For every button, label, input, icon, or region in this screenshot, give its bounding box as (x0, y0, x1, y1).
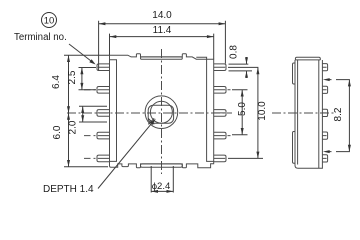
arrowhead leader terminal no (89, 59, 95, 64)
svg-text:8.2: 8.2 (333, 107, 344, 121)
side view body (295, 60, 322, 168)
svg-text:2.5: 2.5 (67, 70, 78, 84)
leader terminal no (69, 44, 94, 63)
terminal R5 (214, 155, 226, 162)
arrowheads dim 6.0 (67, 113, 70, 120)
svg-text:10.0: 10.0 (257, 101, 268, 121)
dim 11.4 line (110, 34, 214, 60)
arrowheads dim 8.2 (323, 78, 330, 81)
body outline (top view) (110, 54, 214, 168)
dim 5.0 line (232, 90, 248, 135)
svg-text:Terminal no.: Terminal no. (14, 32, 67, 43)
svg-text:6.0: 6.0 (52, 125, 63, 139)
arrowheads dim 6.4 (67, 55, 70, 62)
center hole circle (150, 101, 172, 123)
dim 6.0 line (64, 113, 108, 167)
vertical centerline (161, 49, 163, 174)
svg-text:6.4: 6.4 (51, 75, 62, 89)
svg-text:0.8: 0.8 (229, 45, 240, 59)
terminal R1 (214, 64, 226, 71)
inner contour left (110, 60, 117, 162)
dim 0.8 lines (229, 57, 253, 78)
side view bump row1 (322, 64, 328, 71)
arrowheads dim 2.0 (81, 106, 84, 113)
svg-text:ϕ2.4: ϕ2.4 (152, 181, 171, 192)
driver slot rounded square (148, 105, 173, 123)
terminal R2 (214, 87, 231, 94)
terminal L2 (84, 87, 110, 94)
svg-text:DEPTH 1.4: DEPTH 1.4 (43, 184, 94, 195)
side view bump row2 (322, 86, 328, 93)
side view bump row5 (322, 155, 328, 162)
svg-text:10: 10 (44, 16, 55, 27)
arrowhead leader depth (150, 119, 156, 125)
horizontal centerline (67, 112, 232, 114)
dim 14.0 line (99, 21, 226, 71)
dim 10.0 line (228, 67, 263, 158)
side view bump row3 (322, 109, 328, 116)
arrowheads dim 10.0 (256, 67, 259, 74)
arrowheads dim 11.4 (110, 35, 117, 38)
svg-text:2.0: 2.0 (68, 120, 79, 134)
terminal L1 (97, 64, 110, 71)
top insert strip (141, 57, 183, 59)
terminal L4 (84, 132, 110, 139)
side view centerline (272, 112, 334, 114)
arrowheads dim 14.0 (99, 22, 106, 25)
dim 2.5 line (79, 68, 97, 90)
bottom insert strip (141, 164, 183, 167)
leader depth (98, 124, 151, 188)
depth x mark (148, 118, 154, 124)
svg-text:11.4: 11.4 (153, 25, 172, 36)
inner contour right (196, 57, 213, 161)
terminal L5 (84, 155, 110, 162)
arrowheads dim 0.8 (245, 57, 248, 64)
rotor outer circle (145, 96, 178, 129)
side view top lip (295, 57, 320, 60)
terminal R4 (214, 132, 231, 139)
side view inner contour (298, 60, 319, 168)
terminal R3 (214, 110, 226, 117)
arrowheads dim 5.0 (241, 90, 244, 97)
svg-text:14.0: 14.0 (152, 10, 172, 21)
dim 2.0 line (79, 106, 107, 122)
arrowheads dim 2.5 (80, 68, 83, 75)
side view bump row4 (322, 132, 328, 139)
dim 6.4 line (64, 55, 109, 113)
dim phi2.4 lines (151, 166, 173, 193)
side view left tab lower (293, 132, 296, 164)
svg-text:5.0: 5.0 (237, 102, 248, 116)
arrowheads dim phi2.4 (151, 190, 158, 193)
dim 8.2 lines (328, 80, 350, 152)
side view left tab upper (293, 63, 296, 84)
terminal L3 (97, 110, 110, 117)
terminal number circle (42, 13, 57, 28)
